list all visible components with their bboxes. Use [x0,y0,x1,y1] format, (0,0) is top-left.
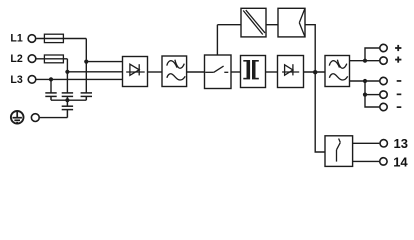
relay K1 contact symbol [337,139,341,162]
wire ground bus [51,99,86,101]
wire link U3 to U4 [266,24,278,26]
wire L3 tap down [50,79,52,92]
diode D1 box [278,56,304,88]
wire switch to transformer [231,71,241,73]
terminal L2 [28,55,36,63]
output filter U5 sine bottom [329,74,347,80]
node minus tap 2 [363,93,367,97]
fuse F1 [44,34,63,42]
wire L1 row [36,38,86,40]
relay K1 box [325,136,353,167]
terminal L1 [28,35,36,43]
node L1 tap [84,60,88,64]
wire PE to cap [40,117,68,119]
wire minus rail [350,80,380,82]
node bus center [65,98,69,102]
label plus 2 [395,57,401,63]
regulator U4 box [278,8,305,37]
svg-text:L1: L1 [10,33,22,45]
wire relay out 13 [353,142,380,144]
node main junction [313,70,317,74]
switch S1 box [205,55,232,89]
terminal out plus 1 [380,44,387,51]
regulator U4 arrow symbol [299,8,305,37]
node plus tap [363,59,367,63]
wire transformer to diode [266,71,278,73]
wire L2 to rectifier [67,71,122,73]
terminal out minus 3 [380,103,387,110]
wire minus stub mid [365,94,379,96]
terminal 14 [380,158,387,165]
terminal L3 [28,76,36,84]
wire plus rail [350,60,380,62]
wire relay out 14 [353,160,380,162]
wire L3 row [37,78,123,80]
node L3 tap [49,77,53,81]
transformer T1 box [241,56,266,88]
output filter U5 box [325,56,350,87]
transformer T1 winding symbol [243,60,258,79]
rectifier U1 box [123,57,148,87]
wire relay drop [315,72,325,152]
wire top rail right [305,25,315,72]
switch S1 contact symbol [205,66,228,72]
capacitor C4 [62,100,73,117]
wire plus riser [365,48,379,61]
converter U3 box [241,8,266,37]
wire L1 to rectifier [86,61,122,63]
terminal PE [31,114,39,122]
wire filter to switch [187,71,205,73]
ground PE symbol [11,111,24,124]
converter U3 diagonal symbol [243,10,265,34]
wire switch top stub [216,25,218,55]
fuse F2 [44,55,63,63]
capacitor C3 [81,93,92,100]
wire top rail [217,24,241,26]
terminal out plus 2 [380,57,387,64]
svg-text:13: 13 [394,136,408,151]
svg-text:L3: L3 [10,74,22,86]
capacitor C2 [62,93,73,100]
wire minus riser [365,81,379,107]
filter U2 sine top [167,61,177,68]
label minus 2 [397,94,402,96]
wire L2 row [37,58,68,60]
label plus 1 [395,45,401,51]
terminal 13 [380,140,387,147]
output filter U5 sine top [329,61,339,68]
label minus 1 [397,80,402,82]
svg-text:L2: L2 [10,53,22,65]
wire L1 corner down [85,39,87,93]
capacitor C1 [45,93,56,100]
label minus 3 [397,106,402,108]
terminal out minus 2 [380,91,387,98]
rectifier U1 diode symbol [126,64,145,75]
wire rectifier to filter [148,71,163,73]
filter U2 box [162,56,187,87]
diode D1 symbol [282,64,299,75]
filter U2 sine bottom [167,74,185,80]
terminal out minus 1 [380,77,387,84]
node minus tap 1 [363,79,367,83]
wire L2 corner down [66,59,68,93]
node L2 tap [65,70,69,74]
svg-text:14: 14 [393,154,408,169]
wire diode to output filter [304,71,326,73]
